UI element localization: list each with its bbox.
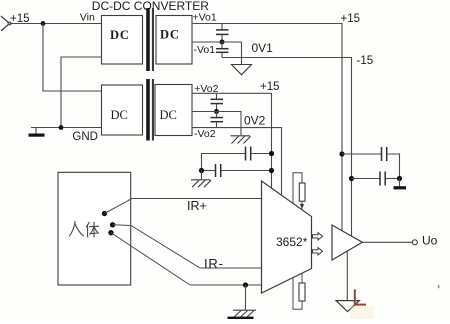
arrow output signal 2 (hollow) — [313, 248, 323, 255]
resistor R2 — [299, 283, 305, 301]
DC module U2 input box — [102, 85, 143, 135]
svg-text:Vin: Vin — [80, 11, 95, 23]
svg-text:+Vo1: +Vo1 — [193, 12, 217, 24]
box human body (ren ti) — [58, 172, 131, 285]
svg-text:IR+: IR+ — [187, 199, 207, 213]
terminal circle (input) — [8, 22, 11, 25]
transformer isolation bars row1 — [146, 8, 154, 71]
watermark remnant (brown mark) — [355, 289, 366, 304]
wire lead dot1 to IR+ — [105, 199, 133, 214]
node junction J2 — [214, 109, 219, 114]
wire U1 lower-left pin to GND rail — [61, 57, 102, 128]
svg-text:GND: GND — [72, 131, 98, 143]
node junction on GND wire — [59, 125, 64, 130]
wire Vin — [10, 23, 102, 25]
hatched ground A (below 0V2 node) — [231, 136, 251, 144]
DC module U1 output box — [156, 16, 192, 65]
wire lead dot2 to IR- — [113, 225, 200, 268]
svg-text:IR-: IR- — [204, 256, 224, 271]
wire output — [362, 241, 412, 243]
wire bypass cap upper (+15 rail) — [202, 154, 246, 171]
wire -Vo2 / 0V2 down to amplifier — [192, 128, 282, 196]
svg-text:+Vo2: +Vo2 — [194, 83, 218, 95]
svg-text:+15: +15 — [260, 81, 280, 93]
wire bypass cap lower — [202, 170, 216, 172]
wire IR- — [200, 267, 262, 269]
capacitor C2 upper — [211, 93, 224, 111]
svg-text:DC: DC — [160, 28, 180, 42]
resistor R2 (bottom) top stem — [301, 273, 303, 283]
resistor R2 loop wire — [293, 278, 302, 309]
wire +Vo2 down to amplifier — [192, 93, 272, 188]
wire +15 to second converter — [43, 24, 102, 92]
capacitor C1 upper — [216, 24, 229, 43]
ground bar (bottom, thick) — [228, 317, 254, 319]
hatched ground C — [233, 310, 256, 317]
node junction bypass left — [199, 168, 204, 173]
wire stem to hatched ground B — [201, 171, 203, 180]
svg-text:-Vo1: -Vo1 — [194, 44, 216, 56]
hatched ground B — [191, 180, 211, 187]
node junction on +15 drop (upper) — [269, 151, 274, 156]
wire stem to hatched ground C — [245, 285, 247, 310]
watermark remnant (pale yellow smudge) — [350, 306, 374, 319]
svg-text:-15: -15 — [357, 55, 374, 67]
capacitor C7 — [380, 172, 385, 186]
ground bar (GND, left) — [29, 128, 45, 137]
node junction caps common — [397, 176, 402, 181]
capacitor C5 — [216, 164, 221, 177]
wire C4 to +15 drop — [251, 153, 272, 155]
capacitor C6 — [382, 147, 387, 161]
DC module U2 output box — [155, 85, 192, 136]
terminal Uo (open circle) — [412, 240, 417, 245]
node sensor dot 3 — [108, 230, 113, 235]
wire +Vo1 to +15 rail — [192, 24, 342, 231]
node junction -15 rail — [349, 176, 354, 181]
DC module U1 input box — [102, 16, 143, 65]
svg-text:DC: DC — [110, 28, 130, 42]
svg-text:DC: DC — [160, 108, 177, 122]
node junction on +15 drop (lower) — [269, 168, 274, 173]
node sensor dot 1 — [102, 211, 107, 216]
svg-text:0V1: 0V1 — [252, 41, 274, 55]
wire mid pin to hatched ground — [192, 112, 241, 136]
svg-text:0V2: 0V2 — [244, 114, 266, 128]
wire C7 to ground node — [386, 178, 400, 180]
wire R1 bottom stem with arrow — [300, 201, 304, 209]
wire IR+ — [131, 198, 262, 200]
capacitor C4 — [246, 147, 251, 161]
op-amp U4 (output buffer triangle) — [332, 225, 362, 260]
ground triangle (op-amp) — [336, 301, 359, 312]
svg-text:3652*: 3652* — [276, 235, 308, 249]
label ren ti (Chinese, drawn strokes) — [69, 221, 98, 237]
capacitor C2 lower — [211, 112, 224, 128]
svg-text:+15: +15 — [341, 13, 361, 25]
wire 0V1 to -15 rail — [222, 58, 352, 237]
wire stem to ground triangle — [241, 42, 243, 65]
wire op-amp ground stem — [346, 251, 348, 300]
resistor R1 — [299, 183, 305, 201]
wire lead dot3 to common — [111, 233, 190, 285]
node junction on Vin wire — [41, 21, 46, 26]
speck (scan artifact) — [438, 285, 440, 288]
input terminal chevron — [1, 16, 10, 31]
node junction common — [243, 282, 248, 287]
node junction J1 — [220, 40, 225, 45]
wire GND — [31, 127, 102, 129]
arrow output signal 1 (hollow) — [313, 233, 323, 240]
node junction +15 rail — [339, 151, 344, 156]
ground bar (right) — [394, 179, 407, 190]
wire common to amplifier — [190, 284, 262, 286]
wire -15 rail to C7 — [352, 178, 381, 180]
wire C5 to +15 drop — [221, 170, 272, 172]
wire +15 rail to C6 — [342, 153, 381, 155]
wire -Vo1 — [192, 41, 242, 43]
wire C6 to ground node — [387, 154, 400, 179]
transformer isolation bars row2 — [146, 79, 154, 141]
node sensor dot 2 — [110, 222, 115, 227]
isolation amplifier U3 3652 (trapezoid) — [262, 181, 312, 293]
resistor R1 (top) loop wire — [293, 173, 302, 204]
capacitor C1 lower — [216, 42, 229, 58]
svg-text:-Vo2: -Vo2 — [194, 128, 216, 140]
svg-text:Uo: Uo — [422, 234, 438, 248]
svg-text:DC: DC — [111, 108, 128, 122]
ground triangle (0V1) — [232, 65, 252, 75]
